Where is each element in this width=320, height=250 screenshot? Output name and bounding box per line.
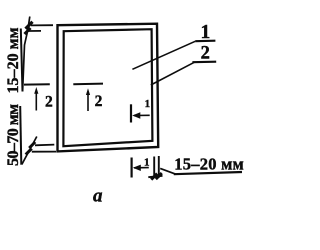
svg-text:1: 1: [144, 157, 150, 169]
right fastener mark: overline: [73, 83, 103, 86]
underline of vertical 50-70 mm: [20, 106, 21, 165]
bottom-right tick right: [156, 173, 162, 179]
section marker A: view arrow: [134, 114, 150, 116]
svg-text:а: а: [93, 186, 103, 207]
underline of vertical 15-20 mm: [21, 29, 23, 92]
left fastener mark: up arrow: [35, 92, 37, 111]
underline of label 1: [195, 40, 215, 43]
svg-text:1: 1: [201, 22, 211, 43]
top-left tick lower: [25, 28, 31, 34]
svg-text:15–20 мм: 15–20 мм: [174, 155, 244, 174]
leader of label 1: [132, 41, 195, 69]
left fastener mark: overline: [24, 83, 50, 85]
top-left extension line lower: [29, 30, 42, 32]
right fastener mark: up arrow: [87, 93, 89, 111]
bottom-left extension line lower: [32, 151, 56, 153]
svg-text:2: 2: [45, 93, 53, 110]
bottom-left leader line: [22, 137, 37, 165]
bottom-left tick lower: [26, 149, 32, 155]
top-left tick upper: [26, 22, 33, 29]
section marker B: cutting trace: [131, 158, 133, 178]
svg-text:2: 2: [201, 44, 210, 64]
svg-text:15–20 мм: 15–20 мм: [5, 27, 22, 93]
outer frame (panel outline): [58, 24, 159, 152]
section marker B: view arrow: [134, 167, 149, 169]
svg-text:2: 2: [95, 93, 103, 110]
bottom-left tick upper: [29, 142, 35, 148]
svg-text:1: 1: [145, 98, 151, 110]
top-left leader line: [23, 17, 30, 92]
section marker A: cutting trace: [130, 104, 132, 122]
bottom-right tick left: [151, 174, 157, 180]
inner frame (sheet edge line): [63, 29, 152, 146]
bottom-right extension line left: [153, 157, 155, 178]
bottom-left extension line upper: [35, 144, 54, 147]
bottom-right dimension line: [148, 176, 162, 177]
leader of label 2: [151, 62, 194, 85]
leader to horizontal 15-20 mm: [160, 168, 176, 174]
underline of label 2: [192, 61, 216, 64]
top-left extension line upper: [31, 24, 53, 26]
underline of horizontal 15-20 mm: [174, 172, 242, 174]
bottom-right extension line right: [158, 156, 160, 178]
